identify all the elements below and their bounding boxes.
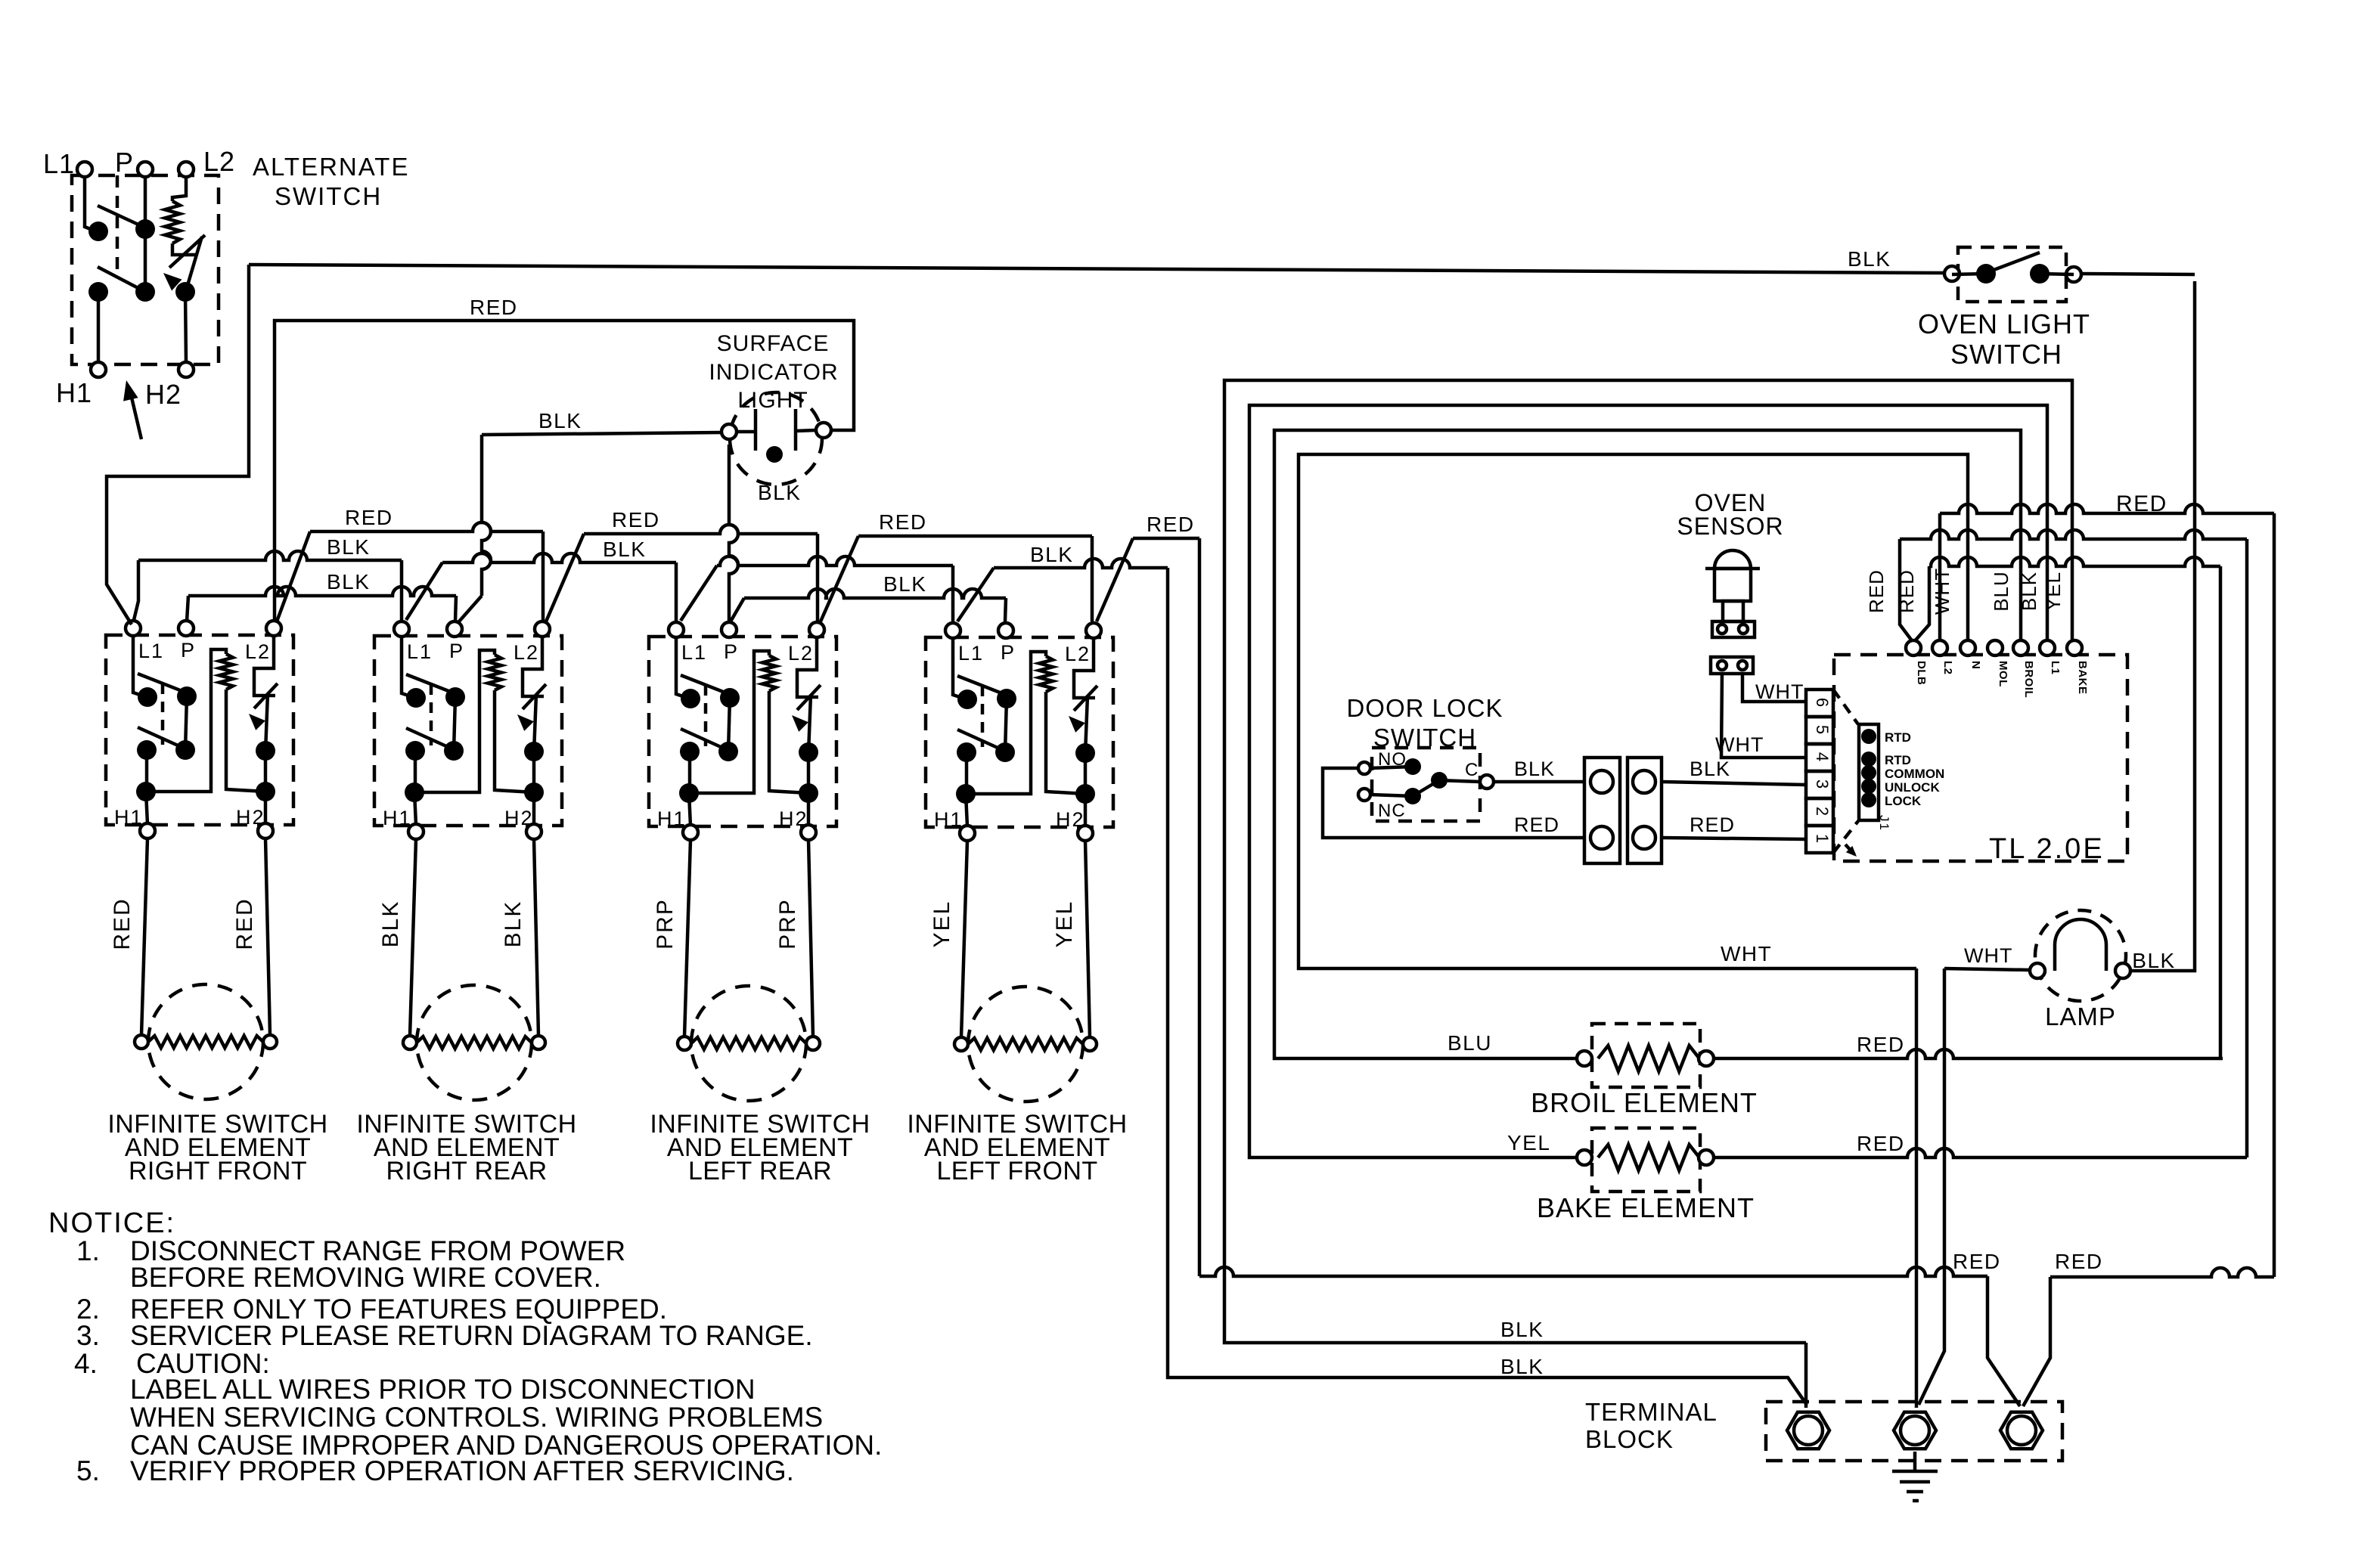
svg-text:RED: RED	[232, 897, 257, 950]
svg-text:RED: RED	[1865, 569, 1888, 613]
svg-text:P: P	[115, 147, 134, 178]
svg-text:VERIFY PROPER OPERATION AFTER: VERIFY PROPER OPERATION AFTER SERVICING.	[130, 1455, 794, 1486]
svg-text:RED: RED	[1690, 813, 1735, 836]
svg-text:SERVICER PLEASE RETURN DIAGRAM: SERVICER PLEASE RETURN DIAGRAM TO RANGE.	[130, 1320, 813, 1351]
svg-text:1.: 1.	[76, 1235, 100, 1266]
svg-text:LABEL ALL WIRES PRIOR TO DISCO: LABEL ALL WIRES PRIOR TO DISCONNECTION	[130, 1374, 756, 1405]
svg-text:YEL: YEL	[929, 900, 954, 948]
svg-text:PRP: PRP	[653, 898, 678, 950]
svg-text:RED: RED	[1895, 569, 1918, 613]
svg-text:SWITCH: SWITCH	[1950, 339, 2062, 370]
svg-text:BROIL ELEMENT: BROIL ELEMENT	[1531, 1087, 1758, 1118]
svg-text:NOTICE:: NOTICE:	[48, 1207, 175, 1239]
svg-text:BLK: BLK	[883, 572, 926, 596]
svg-text:RED: RED	[2116, 491, 2167, 516]
svg-text:BLK: BLK	[378, 900, 403, 948]
svg-text:LEFT FRONT: LEFT FRONT	[936, 1157, 1097, 1185]
svg-text:RED: RED	[2055, 1250, 2103, 1273]
svg-text:BAKE ELEMENT: BAKE ELEMENT	[1537, 1192, 1755, 1223]
svg-text:BLK: BLK	[2132, 949, 2175, 972]
svg-text:RED: RED	[1147, 513, 1195, 536]
svg-text:WHEN SERVICING CONTROLS. WIRIN: WHEN SERVICING CONTROLS. WIRING PROBLEMS	[130, 1402, 823, 1433]
svg-text:TERMINAL: TERMINAL	[1585, 1398, 1718, 1426]
svg-text:5: 5	[1813, 725, 1832, 736]
svg-text:UNLOCK: UNLOCK	[1885, 780, 1940, 795]
svg-text:RED: RED	[1857, 1033, 1905, 1056]
svg-text:LEFT REAR: LEFT REAR	[688, 1157, 832, 1185]
svg-text:L2: L2	[203, 146, 235, 177]
svg-text:4: 4	[1813, 752, 1832, 763]
svg-text:DOOR LOCK: DOOR LOCK	[1346, 694, 1503, 722]
svg-text:SENSOR: SENSOR	[1677, 513, 1783, 540]
svg-text:SURFACE: SURFACE	[717, 331, 830, 356]
svg-text:RIGHT FRONT: RIGHT FRONT	[129, 1157, 307, 1185]
svg-text:BLK: BLK	[2018, 572, 2040, 611]
svg-text:RED: RED	[1857, 1132, 1905, 1155]
svg-text:BEFORE REMOVING WIRE COVER.: BEFORE REMOVING WIRE COVER.	[130, 1262, 601, 1293]
svg-text:BLK: BLK	[1848, 247, 1891, 271]
svg-text:RTD: RTD	[1885, 730, 1911, 745]
svg-text:L1: L1	[43, 148, 75, 179]
svg-text:3: 3	[1813, 779, 1832, 790]
svg-text:H2: H2	[145, 379, 182, 410]
svg-text:BLK: BLK	[327, 535, 370, 559]
svg-text:LIGHT: LIGHT	[737, 388, 808, 413]
svg-text:4.: 4.	[74, 1348, 98, 1379]
svg-text:BAKE: BAKE	[2076, 661, 2089, 695]
svg-text:BLK: BLK	[758, 481, 801, 504]
svg-text:1: 1	[1813, 834, 1832, 844]
svg-text:RED: RED	[345, 506, 393, 529]
svg-text:BLK: BLK	[501, 900, 526, 948]
svg-text:BROIL: BROIL	[2022, 661, 2035, 698]
svg-text:RED: RED	[879, 510, 927, 534]
svg-text:BLK: BLK	[1500, 1355, 1544, 1378]
svg-text:RIGHT REAR: RIGHT REAR	[386, 1157, 547, 1185]
svg-text:MOL: MOL	[1997, 661, 2009, 687]
svg-text:COMMON: COMMON	[1885, 767, 1944, 781]
svg-text:BLK: BLK	[1690, 758, 1730, 780]
svg-text:YEL: YEL	[1507, 1131, 1550, 1154]
svg-text:WHT: WHT	[1721, 942, 1772, 965]
svg-text:BLK: BLK	[1514, 758, 1555, 780]
svg-text:WHT: WHT	[1755, 680, 1804, 703]
svg-text:NC: NC	[1378, 801, 1406, 821]
svg-text:H1: H1	[56, 377, 92, 408]
svg-text:L2: L2	[1941, 661, 1954, 675]
svg-text:J1: J1	[1877, 815, 1891, 832]
svg-text:OVEN LIGHT: OVEN LIGHT	[1918, 308, 2090, 339]
svg-text:N: N	[1969, 661, 1982, 669]
svg-text:BLU: BLU	[1990, 571, 2012, 612]
svg-text:5.: 5.	[76, 1455, 100, 1486]
svg-text:YEL: YEL	[1052, 900, 1077, 948]
svg-text:RED: RED	[1953, 1250, 2001, 1273]
svg-text:2: 2	[1813, 807, 1832, 817]
svg-text:WHT: WHT	[1931, 568, 1953, 615]
svg-text:BLK: BLK	[1030, 543, 1073, 566]
svg-text:RED: RED	[470, 296, 518, 319]
svg-text:LAMP: LAMP	[2045, 1003, 2116, 1030]
svg-text:TL 2.0E: TL 2.0E	[1989, 833, 2105, 865]
svg-text:BLK: BLK	[327, 570, 370, 593]
svg-text:BLK: BLK	[603, 538, 646, 561]
svg-text:SWITCH: SWITCH	[275, 182, 382, 210]
svg-text:BLK: BLK	[1500, 1318, 1544, 1341]
svg-text:BLK: BLK	[538, 409, 582, 432]
svg-text:6: 6	[1813, 698, 1832, 708]
svg-text:L1: L1	[2049, 661, 2062, 675]
svg-text:ALTERNATE: ALTERNATE	[253, 153, 409, 181]
svg-text:PRP: PRP	[775, 898, 800, 950]
svg-text:BLU: BLU	[1448, 1031, 1492, 1055]
svg-text:RED: RED	[612, 508, 660, 531]
svg-text:RED: RED	[110, 897, 135, 950]
svg-text:C: C	[1465, 760, 1479, 780]
svg-text:YEL: YEL	[2042, 572, 2065, 611]
svg-text:LOCK: LOCK	[1885, 794, 1922, 808]
svg-text:WHT: WHT	[1715, 733, 1764, 756]
svg-text:BLOCK: BLOCK	[1585, 1425, 1674, 1453]
svg-text:WHT: WHT	[1964, 944, 2012, 967]
svg-text:RTD: RTD	[1885, 753, 1911, 767]
svg-text:INDICATOR: INDICATOR	[709, 360, 838, 385]
svg-text:DLB: DLB	[1915, 661, 1928, 685]
svg-text:3.: 3.	[76, 1320, 100, 1351]
svg-text:RED: RED	[1514, 813, 1559, 836]
